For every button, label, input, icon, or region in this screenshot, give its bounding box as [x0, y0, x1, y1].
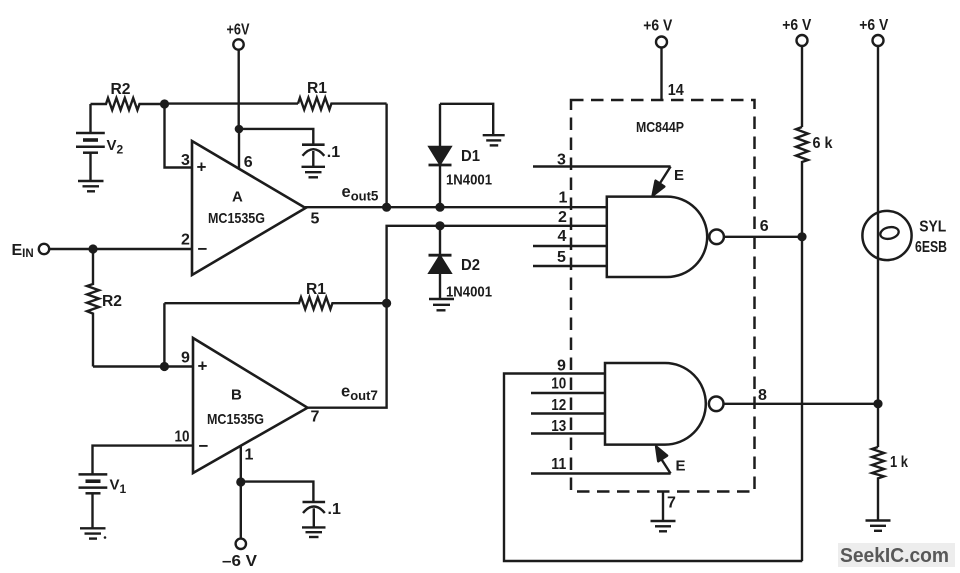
- resistor 1k: [872, 447, 908, 520]
- svg-text:+: +: [197, 158, 207, 177]
- wire output B feedback vertical to line 2: [307, 226, 607, 408]
- stub input pin 12: [531, 412, 606, 414]
- wire pin1 node down to -6V: [240, 482, 242, 539]
- wire pin 10 to V1: [93, 446, 194, 475]
- svg-text:6 k: 6 k: [813, 135, 833, 152]
- wire junction down to pin 3: [165, 104, 193, 168]
- svg-text:B: B: [231, 387, 242, 404]
- wire gate 1 output 6: [724, 236, 802, 238]
- wire pin 14: [660, 48, 662, 100]
- node pin 9 junction: [160, 362, 169, 371]
- svg-text:7: 7: [667, 495, 676, 512]
- wire output A line 1: [305, 206, 607, 208]
- svg-text:7: 7: [311, 409, 320, 426]
- wire pin 6 into op-amp A: [238, 129, 240, 169]
- svg-text:5: 5: [557, 249, 566, 266]
- svg-text:E: E: [676, 458, 686, 475]
- svg-text:SYL: SYL: [919, 218, 946, 235]
- svg-text:.1: .1: [328, 501, 341, 518]
- ground (D2): [429, 299, 454, 310]
- svg-text:10: 10: [551, 376, 566, 393]
- svg-text:R2: R2: [102, 293, 122, 310]
- stub input pin 10: [531, 392, 606, 394]
- svg-text:A: A: [232, 189, 243, 206]
- svg-text:D1: D1: [461, 148, 480, 165]
- node D2 on line 2: [435, 221, 444, 230]
- svg-text:+: +: [198, 357, 208, 376]
- node 6 junction: [797, 232, 806, 241]
- diode D2 1N4001: [429, 226, 493, 301]
- node D1 on line 1: [435, 203, 444, 212]
- svg-text:R1: R1: [307, 80, 327, 97]
- battery V2: [76, 104, 124, 181]
- svg-text:2: 2: [558, 209, 567, 226]
- svg-text:1: 1: [559, 190, 568, 207]
- resistor R2 (input, vertical): [87, 249, 122, 367]
- svg-text:R1: R1: [306, 281, 326, 298]
- pin 1 wire: [240, 446, 242, 482]
- wire R2 bottom to pin 9: [93, 365, 193, 367]
- svg-text:9: 9: [181, 350, 190, 367]
- node output A / R1: [382, 203, 391, 212]
- svg-text:8: 8: [758, 387, 767, 404]
- svg-text:+6V: +6V: [227, 22, 250, 39]
- node pin6 junction: [235, 125, 244, 134]
- ground (V2): [78, 181, 104, 191]
- resistor R1 (bottom feedback): [164, 281, 386, 309]
- svg-text:1: 1: [245, 447, 254, 464]
- svg-text:10: 10: [175, 429, 190, 446]
- svg-text:5: 5: [311, 211, 320, 228]
- op-amp U-B MC1535G: [193, 338, 308, 473]
- wire junction to R1: [165, 102, 299, 104]
- op-amp U-A MC1535G: [192, 141, 306, 275]
- terminal -6V: [222, 539, 257, 570]
- wire node 6 down to bottom loop: [801, 237, 803, 561]
- NAND gate G1: [607, 197, 724, 277]
- svg-text:V2: V2: [107, 137, 124, 157]
- svg-text:14: 14: [668, 82, 684, 99]
- svg-text:12: 12: [551, 397, 566, 414]
- watermark SeekIC.com: [838, 543, 955, 567]
- svg-text:MC844P: MC844P: [636, 119, 684, 136]
- ground (D1): [483, 135, 505, 145]
- svg-text:eout5: eout5: [342, 183, 379, 204]
- svg-text:6ESB: 6ESB: [915, 239, 947, 256]
- svg-text:1N4001: 1N4001: [446, 172, 492, 189]
- node 8 junction: [873, 399, 882, 408]
- svg-text:9: 9: [557, 358, 566, 375]
- node R2/R1/pin3 junction: [160, 99, 169, 108]
- node EIN junction: [88, 244, 97, 253]
- diode D1 1N4001: [429, 104, 493, 207]
- wire EIN to pin 2: [49, 248, 192, 250]
- ground (cap A): [302, 167, 326, 178]
- svg-text:R2: R2: [111, 81, 131, 98]
- feedback wire from pin 9 loop: [504, 374, 802, 562]
- lamp SYL 6ESB: [862, 46, 947, 404]
- wire node 8 to 1k: [877, 404, 879, 447]
- stub input pin 4: [533, 245, 607, 247]
- node R1 bottom / feedback: [382, 299, 391, 308]
- NAND gate G2: [605, 363, 724, 445]
- resistor 6k: [796, 127, 833, 237]
- svg-text:−: −: [199, 437, 209, 456]
- svg-text:eout7: eout7: [341, 383, 378, 404]
- svg-text:D2: D2: [461, 257, 480, 274]
- capacitor .1 (B bypass): [303, 501, 341, 527]
- battery V1: [79, 474, 127, 528]
- svg-text:1 k: 1 k: [890, 454, 908, 471]
- svg-text:+6 V: +6 V: [643, 18, 672, 35]
- terminal +6V (lamp): [859, 17, 888, 46]
- ground (cap B): [302, 527, 326, 537]
- input terminal EIN: [12, 242, 50, 260]
- svg-text:MC1535G: MC1535G: [208, 210, 265, 227]
- node pin 1 junction: [236, 477, 245, 486]
- svg-text:3: 3: [181, 152, 190, 169]
- wire node to bypass cap A: [239, 129, 313, 145]
- wire D1 anode to ground: [440, 104, 493, 135]
- svg-text:.1: .1: [327, 144, 340, 161]
- wire +6V down to pin 6 node: [237, 50, 239, 129]
- svg-text:−: −: [198, 240, 208, 259]
- stub input pin 13: [531, 432, 606, 434]
- svg-text:V1: V1: [110, 477, 127, 497]
- strobe line pin 11 with arrow E (gate 2): [531, 447, 686, 475]
- ground (V1): [80, 528, 106, 539]
- svg-text:6: 6: [244, 154, 253, 171]
- svg-text:13: 13: [551, 418, 566, 435]
- resistor R2 (top feedback): [91, 81, 165, 110]
- svg-text:MC1535G: MC1535G: [207, 411, 264, 428]
- wire +6V to 6k: [801, 46, 803, 127]
- svg-text:6: 6: [760, 218, 769, 235]
- wire R1 right end down to output A: [385, 104, 387, 208]
- wire package pin 7: [662, 492, 664, 521]
- strobe line pin 3 with arrow E (gate 1): [533, 167, 684, 196]
- svg-text:–6 V: –6 V: [222, 553, 257, 570]
- svg-text:E: E: [674, 167, 684, 184]
- resistor R1 (top feedback): [298, 80, 387, 110]
- wire pin9 node up to R1 bottom line: [163, 303, 165, 366]
- capacitor .1 (A bypass): [302, 144, 340, 167]
- svg-text:SeekIC.com: SeekIC.com: [840, 545, 949, 567]
- terminal +6V (op-amp A supply): [227, 22, 250, 50]
- wire pin1 node to bypass cap B: [241, 482, 314, 502]
- ground (pin 7): [651, 521, 676, 531]
- dashed package outline MC844P: [571, 100, 755, 492]
- svg-text:EIN: EIN: [12, 242, 34, 260]
- wire gate 2 output 8: [724, 403, 879, 405]
- svg-text:2: 2: [181, 232, 190, 249]
- svg-text:11: 11: [551, 456, 566, 473]
- svg-text:4: 4: [558, 228, 567, 245]
- svg-text:+6 V: +6 V: [782, 17, 811, 34]
- ground (1k): [866, 521, 891, 531]
- stub input pin 5: [533, 265, 607, 267]
- terminal +6V (6k pull-up): [782, 17, 811, 46]
- terminal +6V (package pin 14): [643, 18, 672, 48]
- svg-text:3: 3: [557, 152, 566, 169]
- svg-text:+6 V: +6 V: [859, 17, 888, 34]
